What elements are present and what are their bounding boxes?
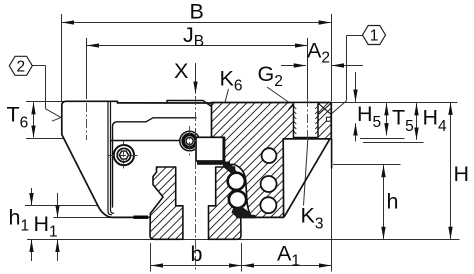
svg-text:1: 1: [370, 28, 379, 45]
svg-text:X: X: [174, 59, 188, 83]
svg-text:h: h: [387, 190, 399, 214]
svg-text:b: b: [191, 242, 203, 266]
svg-text:B: B: [190, 0, 204, 24]
svg-text:H: H: [454, 162, 470, 186]
svg-text:2: 2: [16, 58, 25, 75]
